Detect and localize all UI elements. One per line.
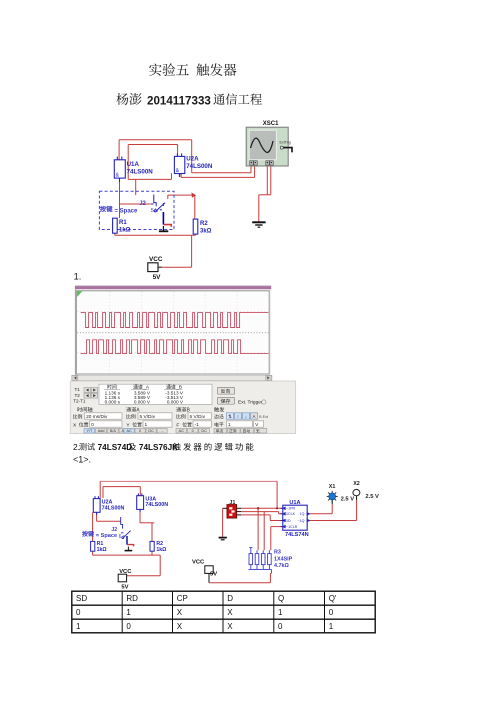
wire c1 scope B feed <box>181 176 255 178</box>
wire c2 bottom rail <box>93 554 161 556</box>
wire X1 drop b <box>331 504 333 514</box>
svg-text:ExtTrig: ExtTrig <box>280 141 291 145</box>
svg-text:U1A: U1A <box>127 161 140 168</box>
svg-text:1: 1 <box>329 622 334 631</box>
wire J1 gnd drop <box>222 508 224 536</box>
svg-text:5V: 5V <box>153 274 162 281</box>
resistor R1 1k <box>113 218 118 233</box>
wire J1 pin3 stub <box>237 514 241 516</box>
wire c2 cross low <box>97 520 121 522</box>
svg-text:5V: 5V <box>210 571 217 577</box>
scope waveform channel B <box>81 340 242 354</box>
scope window title bar <box>75 286 271 289</box>
svg-text:= Space: = Space <box>115 208 139 214</box>
power source VCC (c2 latch) <box>118 574 126 582</box>
svg-text:R1: R1 <box>119 220 127 226</box>
svg-text:X2: X2 <box>353 481 360 487</box>
wire Qn to X2 <box>310 520 357 522</box>
wire X1 drop a <box>331 500 333 504</box>
svg-text:5V: 5V <box>121 584 128 590</box>
wire c1 gate bottom link <box>128 178 171 180</box>
switch J2 <box>151 195 165 212</box>
svg-text:X: X <box>177 622 183 631</box>
svg-text:3kΩ: 3kΩ <box>200 228 212 234</box>
wire c2 gateA out r <box>102 487 104 498</box>
resistor pack R3 4.7k <box>249 548 272 574</box>
svg-text:X1: X1 <box>329 484 336 490</box>
svg-text:T2: T2 <box>75 393 81 398</box>
svg-text:_B: _B <box>175 385 182 390</box>
wire c1 top bus <box>119 139 192 141</box>
wire c1 scope gnd bridge <box>259 194 271 196</box>
title text 实验五 触发器 <box>149 63 189 76</box>
body text 及 <box>128 443 136 450</box>
wire c1 U2A in up <box>171 173 173 179</box>
svg-text:AC: AC <box>126 429 132 433</box>
svg-text:X: X <box>227 622 233 631</box>
label c2 按键 <box>82 531 94 537</box>
svg-text:RD: RD <box>126 594 138 603</box>
svg-text:1: 1 <box>76 622 81 631</box>
wire c2 switch right <box>143 522 155 524</box>
wire J1 sig1 <box>241 507 283 509</box>
oscilloscope XSC1 icon <box>246 127 292 166</box>
wire c1 cross <box>128 144 177 146</box>
svg-text:DC: DC <box>148 429 154 433</box>
wire X2 drop b <box>356 500 358 521</box>
wire c1 U2A top drop <box>177 145 179 157</box>
svg-text:~1CLR: ~1CLR <box>286 525 298 529</box>
scope channel B buttons <box>176 428 187 433</box>
wire c1 bottom rail <box>115 234 196 236</box>
wire c1 U1A out up <box>127 145 129 180</box>
svg-text:F: F <box>176 422 179 428</box>
wire c2 R2 drop <box>151 523 153 542</box>
selection box around J2 <box>99 191 174 229</box>
wire c1 R2 bottom stub <box>195 234 197 235</box>
svg-text:74LS76JK: 74LS76JK <box>139 443 178 452</box>
wire c1 switch right link <box>168 194 195 196</box>
svg-text:74LS74D: 74LS74D <box>98 443 133 452</box>
svg-text:T2-T1: T2-T1 <box>73 399 86 404</box>
svg-text:U2A: U2A <box>186 156 199 163</box>
title text 触发器 <box>197 63 237 76</box>
wire X2 drop a <box>356 496 358 500</box>
wire J1 sig3 b <box>270 520 283 522</box>
scope channel A section <box>126 407 139 412</box>
body text 测试 <box>79 443 95 450</box>
wire c1 U2A feed drop <box>135 179 137 195</box>
svg-text:U1A: U1A <box>289 500 300 506</box>
svg-text:1Q: 1Q <box>300 512 305 516</box>
wire c1 R2 drop <box>194 195 196 219</box>
wire c2 gateB down <box>139 509 141 522</box>
wire c1 vcc feed <box>162 266 192 268</box>
wire c1 switch left link <box>120 203 151 205</box>
junction dot sig1 <box>257 507 259 509</box>
scope display area <box>76 291 269 374</box>
switch J2 (c2) <box>121 517 131 538</box>
svg-text:74LS00N: 74LS00N <box>186 163 213 170</box>
wire c1 vcc stub <box>158 266 162 268</box>
power source VCC (c2 right) <box>205 566 213 574</box>
svg-text:2.5 V: 2.5 V <box>341 496 355 502</box>
resistor R2 (c2) <box>150 541 154 551</box>
svg-text:0: 0 <box>126 622 131 631</box>
wire c1 scope B up <box>254 166 256 177</box>
scope cursor buttons T1 T2 <box>73 387 86 403</box>
wire c1 U1A out down <box>119 178 121 218</box>
svg-text:5 V: 5 V <box>151 208 159 214</box>
wire c1 pole to gnd <box>163 225 171 227</box>
wire c2 gateB link <box>140 522 143 524</box>
wire c2 pole <box>126 536 128 545</box>
wire c1 scope A feed <box>192 172 251 174</box>
svg-text:4.7kΩ: 4.7kΩ <box>274 563 289 569</box>
svg-text:Ext. Trigger: Ext. Trigger <box>238 400 263 406</box>
ground (scope) <box>252 222 265 227</box>
svg-text:↑: ↑ <box>237 414 239 419</box>
wire J1 pin2 stub <box>237 511 241 513</box>
svg-text:2014117333: 2014117333 <box>147 95 211 108</box>
scope Y/T Add buttons <box>84 428 95 433</box>
wire c1 switch right up <box>167 195 169 199</box>
wire c2 R2 stub <box>151 551 153 555</box>
wire c1 gnd drop <box>258 195 260 222</box>
author major 通信工程 <box>213 93 262 104</box>
svg-text:0: 0 <box>76 608 81 617</box>
op-amp gate U2A 74LS00N <box>174 153 184 177</box>
wire c1 bus right drop <box>191 140 193 173</box>
svg-text:2.5 V: 2.5 V <box>365 494 379 500</box>
wire c1 R1 bottom stub <box>114 233 116 235</box>
scope AC DC buttons <box>124 428 134 433</box>
svg-text:VCC: VCC <box>119 569 132 575</box>
scope trigger type buttons <box>214 428 227 433</box>
wire c2 pole gnd <box>127 545 134 547</box>
svg-text:DC: DC <box>201 429 207 433</box>
svg-text:Q': Q' <box>329 594 337 603</box>
svg-text:0: 0 <box>329 608 334 617</box>
resistor R1 (c2) <box>91 541 95 551</box>
wire c2 vcc riser <box>159 555 161 576</box>
svg-text:6 v: 6 v <box>119 534 126 540</box>
wire c1 vcc riser <box>191 235 193 267</box>
label J2 key 按键 <box>100 206 112 212</box>
svg-text:0: 0 <box>192 429 194 433</box>
wire vcc2 to R3 <box>209 582 270 584</box>
wire R3 riser <box>269 573 271 582</box>
svg-text:XSC1: XSC1 <box>263 121 279 127</box>
svg-text:74LS00N: 74LS00N <box>127 168 154 175</box>
svg-text:0: 0 <box>91 422 94 428</box>
svg-text:1D: 1D <box>286 519 291 523</box>
wire pullup 3 <box>270 527 272 551</box>
scope window frame <box>75 286 271 382</box>
svg-text:CP: CP <box>177 594 188 603</box>
wire c2 bus drop to clk <box>276 481 278 508</box>
wire pre horiz <box>271 526 283 528</box>
wire c2 gateA down <box>96 512 98 521</box>
wire c2 R1 stub <box>92 551 94 555</box>
wire c2 gateA top drop <box>99 481 101 498</box>
svg-text:J2: J2 <box>139 201 146 207</box>
scope waveform channel A <box>81 313 242 328</box>
scope save button <box>217 397 234 404</box>
svg-text:SD: SD <box>76 594 87 603</box>
svg-text:Y/T: Y/T <box>86 429 93 433</box>
svg-text:5 V/Div: 5 V/Div <box>140 414 156 420</box>
scope scrollbar <box>72 375 272 380</box>
svg-text:= Space: = Space <box>96 533 117 539</box>
wire c1 scope A up <box>250 166 252 173</box>
svg-text:-1: -1 <box>195 422 200 428</box>
scope control panel background <box>70 381 296 434</box>
svg-text:<1>.: <1>. <box>73 455 91 465</box>
wire J1 pin1 stub <box>237 507 241 509</box>
wire J1 left stub <box>223 507 227 509</box>
truth table frame <box>72 591 375 633</box>
svg-text:5 V/Div: 5 V/Div <box>190 414 206 420</box>
wire J1 sig2 b <box>279 513 283 515</box>
author name 杨澎 <box>116 93 141 105</box>
svg-text:1X4SIP: 1X4SIP <box>274 557 293 563</box>
scope trigger section <box>214 407 224 412</box>
ground (switch c2) <box>125 547 133 551</box>
svg-text:1kΩ: 1kΩ <box>119 227 131 233</box>
svg-text:⇅: ⇅ <box>228 414 232 419</box>
truth table text <box>76 594 337 631</box>
wire J1 sig2 <box>241 511 279 513</box>
svg-text:VCC: VCC <box>149 256 163 263</box>
svg-text:1kΩ: 1kΩ <box>156 547 166 553</box>
scope readout box <box>99 384 212 404</box>
svg-text:Q: Q <box>278 594 284 603</box>
op-amp gate U3A 74LS00N <box>137 493 144 511</box>
svg-text:20 ms/Div: 20 ms/Div <box>86 414 108 420</box>
wire c1 scope t4 down <box>270 166 272 195</box>
svg-text:T1: T1 <box>75 387 81 392</box>
svg-text:0.000 s: 0.000 s <box>105 399 121 404</box>
ground (switch J2) <box>159 226 168 231</box>
wire Q to X1 <box>310 513 333 515</box>
probe X2 (off) <box>353 489 360 495</box>
scope grid <box>77 292 268 374</box>
wire pullup 1 <box>257 508 259 550</box>
svg-text:D: D <box>227 594 233 603</box>
wire c1 U2A out down <box>180 174 182 178</box>
svg-text:1: 1 <box>145 422 148 428</box>
resistor R2 3k <box>193 219 198 234</box>
svg-text:B/A: B/A <box>110 429 117 433</box>
svg-text:X: X <box>227 608 233 617</box>
wire pullup 2 <box>263 512 265 551</box>
svg-text:R2: R2 <box>200 221 208 227</box>
wire R3 stub2 <box>270 572 271 574</box>
svg-text:74LS00N: 74LS00N <box>145 502 168 508</box>
svg-text:VCC: VCC <box>192 559 205 565</box>
wire c1 U1A top drop <box>118 140 120 160</box>
ground (J1) <box>219 538 227 540</box>
svg-text:~1Q: ~1Q <box>297 519 304 523</box>
svg-text:0: 0 <box>139 429 141 433</box>
svg-text:B Ext: B Ext <box>259 415 269 419</box>
wire J1 sig3 <box>241 514 270 516</box>
svg-text:A: A <box>253 414 256 419</box>
svg-text:1: 1 <box>278 608 283 617</box>
flip-flop U1A 74LS74N <box>283 505 307 530</box>
wire J1 sig3 jog <box>269 515 271 521</box>
svg-text:~1PR: ~1PR <box>286 507 295 511</box>
power source VCC 5V <box>148 263 158 272</box>
svg-text:X: X <box>177 608 183 617</box>
scope reverse button <box>217 387 234 394</box>
wire c2 gateB top drop <box>139 487 141 496</box>
svg-text:74LS74N: 74LS74N <box>285 532 309 538</box>
scope channel B section <box>176 407 189 412</box>
probe X1 (lit blue) <box>327 491 338 502</box>
body text 触发器的逻辑功能 <box>173 443 254 451</box>
svg-text:AC: AC <box>179 429 185 433</box>
svg-text:Add: Add <box>98 429 105 433</box>
svg-text:R3: R3 <box>274 550 281 556</box>
svg-text:1CLK: 1CLK <box>286 512 296 516</box>
wire c2 top bus <box>100 480 277 482</box>
svg-text:1: 1 <box>228 422 231 428</box>
svg-text:74LS00N: 74LS00N <box>102 505 125 511</box>
wire c1 scope t3 down <box>266 166 268 195</box>
svg-text:_A: _A <box>142 385 150 390</box>
wire J1 sig2 jog <box>278 512 280 514</box>
svg-text:↓: ↓ <box>245 414 247 419</box>
switch J1 DIP <box>227 505 237 518</box>
wire c1 switch pole <box>162 212 164 225</box>
wire c2 vcc feed <box>126 575 160 577</box>
svg-text:1.: 1. <box>74 272 82 282</box>
svg-text:2.: 2. <box>73 442 80 452</box>
op-amp gate U1A 74LS00N <box>114 157 125 182</box>
svg-text:0: 0 <box>278 622 283 631</box>
svg-text:J1: J1 <box>229 500 235 506</box>
svg-text:1kΩ: 1kΩ <box>97 547 107 553</box>
op-amp gate U2A(c2) 74LS00N <box>93 496 100 515</box>
wire c2 cross <box>103 486 140 488</box>
wire c2 R1 drop <box>92 512 94 541</box>
scope timebase section <box>77 407 92 412</box>
wire vcc2 drop <box>208 573 210 582</box>
svg-text:0.000 V: 0.000 V <box>167 399 184 404</box>
scope green corner marker <box>77 291 83 297</box>
svg-text:0.000 V: 0.000 V <box>134 399 151 404</box>
svg-text:1: 1 <box>126 608 131 617</box>
